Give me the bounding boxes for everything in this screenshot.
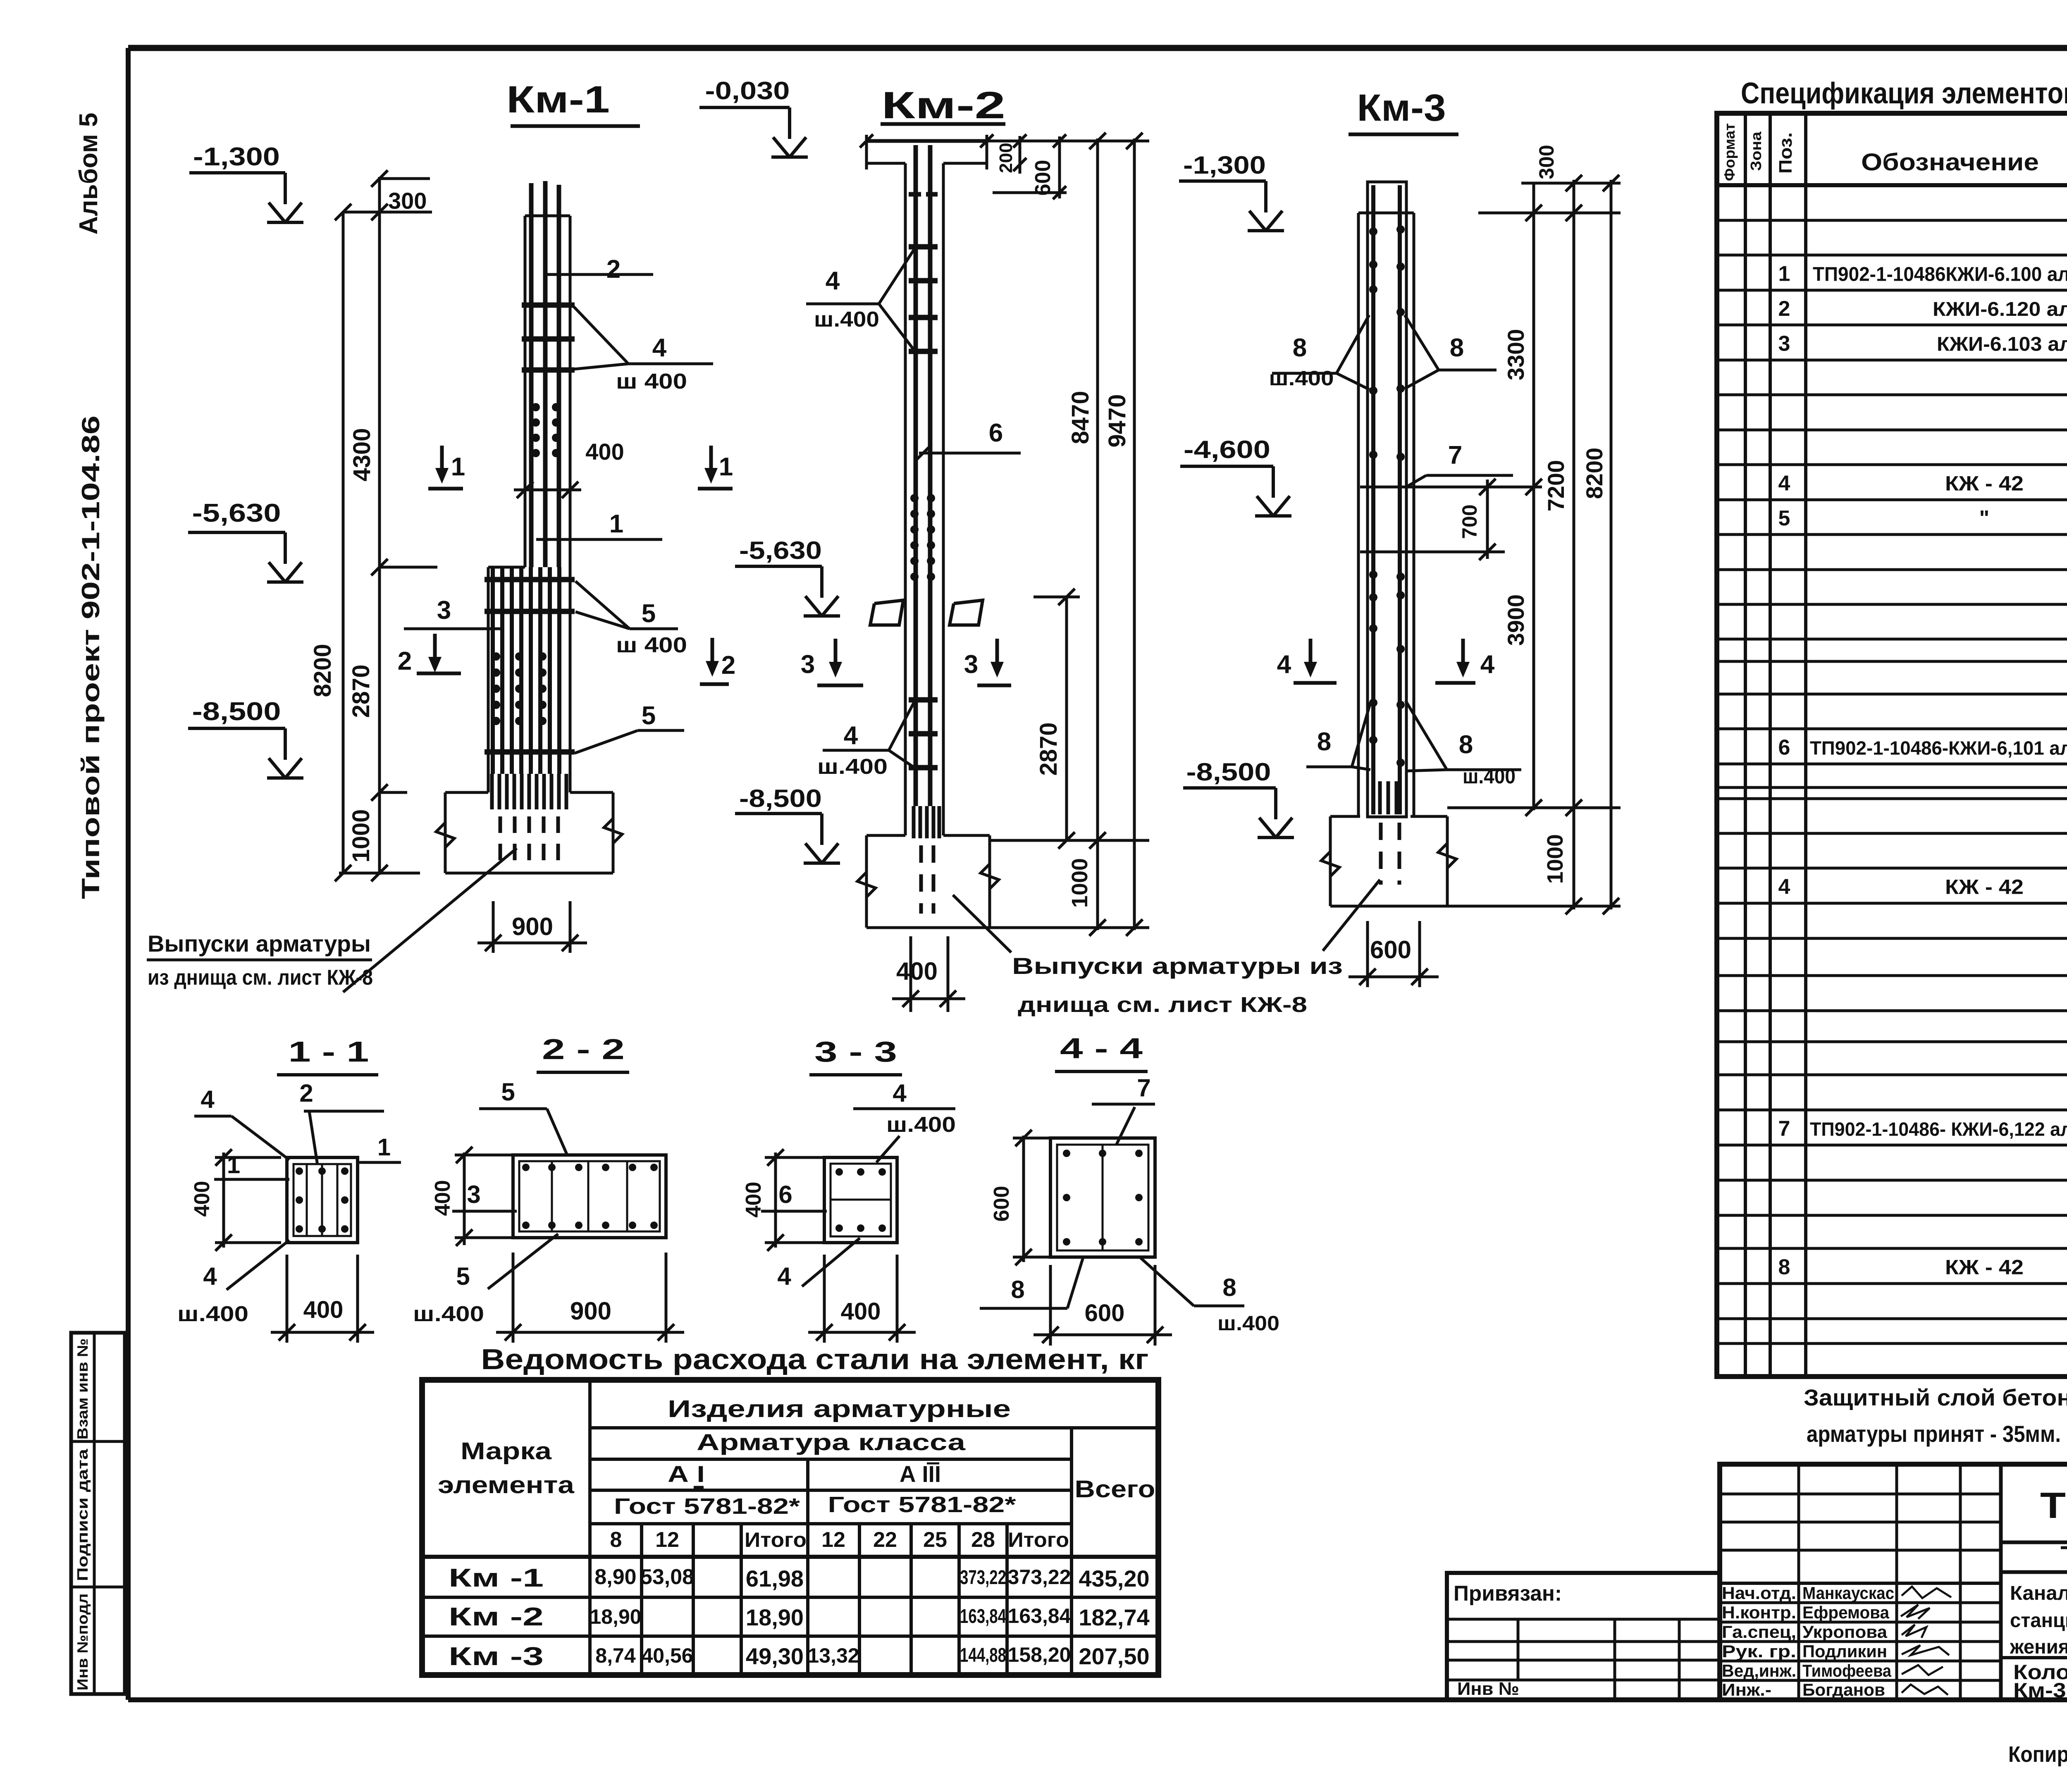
svg-text:18,90: 18,90: [590, 1605, 641, 1628]
svg-text:Изделия арматурные: Изделия арматурные: [668, 1396, 1011, 1422]
svg-text:12: 12: [821, 1528, 845, 1552]
svg-text:Марка: Марка: [461, 1438, 552, 1465]
Км-2 right dimension 600: [993, 134, 1067, 199]
spec row 5: КЖ-42 l=880: [1778, 506, 2067, 530]
svg-text:8: 8: [1459, 730, 1473, 759]
svg-text:Км-1: Км-1: [506, 79, 610, 121]
svg-text:3: 3: [437, 596, 451, 625]
Км-2 section mark 3 left: [801, 639, 863, 685]
Км-2 right dimension 200: [996, 134, 1026, 174]
svg-text:8: 8: [1222, 1274, 1236, 1301]
svg-text:Спецификация элементов к мон: Спецификация элементов к монолитным коло…: [1741, 77, 2067, 110]
svg-text:1: 1: [1778, 262, 1790, 286]
svg-text:-5,630: -5,630: [739, 537, 822, 564]
left margin rotated text: Типовой проект 902-1-104.86: [77, 415, 105, 899]
Км-1 width dim 400 with ticks: [514, 439, 624, 498]
svg-text:А III: А III: [900, 1461, 941, 1487]
svg-text:1: 1: [377, 1134, 391, 1161]
svg-text:Всего: Всего: [1075, 1476, 1155, 1503]
svg-text:КЖ - 42: КЖ - 42: [1945, 472, 2024, 495]
svg-text:8: 8: [1011, 1276, 1024, 1303]
svg-text:Выпуски арматуры из: Выпуски арматуры из: [1012, 953, 1343, 979]
svg-text:-1,300: -1,300: [193, 143, 280, 171]
svg-text:3900: 3900: [1503, 594, 1529, 646]
level mark -8,500 (Км-1): [188, 697, 303, 778]
cross-section 4-4 title: [1055, 1032, 1148, 1071]
Км-3 right dimension chain 3300/3900: [1457, 183, 1542, 816]
spec row 4: КЖ-42 l=380 (Км-2): [1778, 875, 2067, 899]
cross-section 1-1 inner rebar lines: [307, 1164, 337, 1236]
svg-text:Альбом 5: Альбом 5: [74, 113, 103, 235]
svg-text:5: 5: [642, 702, 656, 730]
Км-3 right dimension 300: [1478, 145, 1621, 213]
svg-text:28: 28: [971, 1528, 995, 1552]
cross-section 3-3 title: [809, 1036, 902, 1075]
svg-text:8: 8: [610, 1528, 622, 1552]
svg-text:-1,300: -1,300: [1183, 151, 1266, 179]
svg-text:ТП902-1-10486- КЖИ-6,122 ал 6: ТП902-1-10486- КЖИ-6,122 ал 6: [1810, 1119, 2067, 1140]
section 4-4 callout 7: [1092, 1074, 1155, 1145]
svg-text:1 - 1: 1 - 1: [289, 1036, 369, 1068]
svg-text:144,88: 144,88: [960, 1644, 1006, 1666]
svg-text:ТП902-1-10486-КЖИ-6,101 ал 6: ТП902-1-10486-КЖИ-6,101 ал 6: [1810, 737, 2067, 759]
svg-text:4: 4: [777, 1262, 791, 1290]
column elevation Км-1 title: [506, 79, 640, 126]
svg-text:61,98: 61,98: [746, 1565, 804, 1592]
svg-text:ш.400: ш.400: [886, 1113, 956, 1137]
Км-3 right dimension chain 7200/1000: [1447, 175, 1621, 914]
level mark -4,600 (Км-3): [1180, 436, 1291, 516]
svg-text:6: 6: [989, 419, 1003, 447]
svg-text:-8,500: -8,500: [192, 697, 281, 726]
svg-text:5: 5: [456, 1262, 470, 1290]
svg-text:300: 300: [388, 188, 427, 214]
Км-2 overall dimension 9470: [1104, 133, 1143, 936]
note Выпуски арматуры из днища см. лист КЖ-8 (Км-2/Км-3): [953, 880, 1380, 1017]
Км-1 section mark 2 right: [700, 638, 735, 684]
specification table grid: [1717, 113, 2067, 1377]
Км-1 longitudinal rebars (upper): [531, 181, 559, 567]
svg-text:Рук. гр.: Рук. гр.: [1722, 1642, 1796, 1661]
svg-text:300: 300: [1535, 145, 1558, 179]
svg-text:5: 5: [1778, 506, 1790, 530]
Км-1 stirrup callout 5 upper ш.400: [575, 581, 687, 657]
Км-3 stirrup callout 8 upper-left with ш.400: [1269, 315, 1370, 390]
Км-3 stirrup callout 8 upper-right: [1405, 315, 1497, 389]
svg-text:4: 4: [652, 334, 667, 362]
svg-text:ш.400: ш.400: [817, 755, 888, 779]
Км-2 rebar callout 6: [917, 419, 1021, 460]
svg-text:3300: 3300: [1503, 329, 1529, 381]
Км-1 rebar dots upper cluster: [532, 403, 560, 457]
svg-text:4300: 4300: [348, 428, 375, 481]
svg-text:-0,030: -0,030: [705, 77, 790, 105]
svg-text:Обозначение: Обозначение: [1861, 149, 2039, 176]
Км-3 longitudinal rebars: [1373, 185, 1400, 814]
steel table header Марка элемента: [438, 1438, 575, 1499]
concrete cover note line 2: [1807, 1421, 2061, 1447]
Км-3 stirrup callout 8 lower-right with ш.400: [1406, 701, 1521, 788]
svg-text:ш.400: ш.400: [1269, 367, 1334, 390]
section 3-3 dim 400 left: [742, 1149, 823, 1251]
spec row 8: КЖ-42 l=580: [1778, 1255, 2067, 1279]
svg-text:5: 5: [642, 599, 656, 628]
level mark -1,300 (Км-1): [189, 143, 303, 222]
svg-text:элемента: элемента: [438, 1472, 575, 1499]
svg-text:4: 4: [1778, 472, 1790, 496]
svg-text:163,84: 163,84: [960, 1606, 1006, 1627]
spec row 2: КЖИ-6.120 то же: [1778, 296, 2067, 321]
Км-1 stirrup ticks upper: [522, 305, 575, 370]
title block upper revision rows: [1720, 1494, 2001, 1583]
svg-text:40,56: 40,56: [641, 1644, 693, 1667]
title block project name: [2010, 1582, 2067, 1658]
signature row Рук.гр. Подликин: [1722, 1642, 1949, 1661]
section 1-1 callout 2: [299, 1079, 384, 1165]
section 4-4 dim 600 left: [990, 1130, 1075, 1265]
Км-3 concrete column outline: [1358, 213, 1414, 816]
steel consumption table grid: [422, 1380, 1158, 1675]
svg-text:1000: 1000: [1543, 834, 1568, 884]
svg-text:КЖ - 42: КЖ - 42: [1945, 1256, 2024, 1279]
column elevation Км-2 title: [881, 84, 1005, 126]
svg-text:200: 200: [996, 143, 1016, 173]
svg-text:18,90: 18,90: [746, 1604, 804, 1630]
Км-2 column body outline: [905, 163, 943, 835]
section 1-1 callout 1 left: [214, 1152, 289, 1179]
steel table row Км-2: [449, 1603, 1150, 1631]
svg-text:ш 400: ш 400: [616, 370, 687, 394]
svg-text:2: 2: [299, 1079, 313, 1107]
Км-3 foundation slab outline: [1321, 816, 1456, 906]
svg-text:6: 6: [1778, 736, 1790, 760]
Км-1 section mark 2 left: [398, 634, 461, 675]
concrete cover note line 1: [1804, 1384, 2067, 1410]
svg-text:900: 900: [570, 1297, 611, 1325]
section 1-1 dim 400 bottom: [271, 1255, 374, 1343]
left margin rotated text: Альбом 5: [74, 113, 103, 235]
svg-text:600: 600: [990, 1186, 1014, 1222]
svg-text:4: 4: [844, 721, 858, 750]
column elevation Км-3 title: [1349, 87, 1458, 134]
svg-text:373,22: 373,22: [960, 1567, 1006, 1589]
section 2-2 dim 400 left: [431, 1147, 513, 1246]
svg-text:Км-3: Км-3: [1357, 87, 1446, 129]
steel table header А III: [900, 1461, 941, 1487]
svg-text:": ": [1979, 506, 1990, 530]
svg-text:Итого: Итого: [745, 1528, 807, 1551]
cross-section 2-2 stirrup dividers: [552, 1161, 627, 1231]
Км-1 overall dimension 8200: [309, 204, 351, 881]
Км-2 stirrup ticks upper: [909, 247, 938, 351]
Км-1 stirrup ticks lower: [485, 580, 575, 752]
svg-text:400: 400: [431, 1180, 455, 1216]
svg-text:КЖ - 42: КЖ - 42: [1945, 876, 2024, 899]
svg-text:ш.400: ш.400: [1463, 765, 1516, 788]
svg-text:Гост 5781-82*: Гост 5781-82*: [828, 1492, 1016, 1517]
Км-1 section mark 1 right: [698, 446, 733, 489]
svg-text:4: 4: [1480, 650, 1495, 679]
svg-text:3 - 3: 3 - 3: [814, 1036, 897, 1068]
svg-text:Инж.-: Инж.-: [1722, 1680, 1771, 1699]
svg-text:-8,500: -8,500: [1186, 758, 1271, 786]
svg-text:435,20: 435,20: [1079, 1565, 1149, 1592]
svg-text:400: 400: [303, 1296, 344, 1323]
svg-text:2: 2: [721, 651, 735, 680]
Км-1 dimension chain 300/4300/2870/1000: [339, 170, 437, 881]
Км-3 rebar dots left: [1369, 227, 1377, 744]
steel table diameter headers: [610, 1528, 1069, 1552]
spec row 3: КЖИ-6.103: [1778, 326, 2067, 356]
svg-text:из днища см. лист КЖ-8: из днища см. лист КЖ-8: [148, 966, 373, 990]
svg-text:22: 22: [873, 1528, 897, 1552]
section 1-1 dim 400 left: [190, 1149, 281, 1251]
svg-text:Ефремова: Ефремова: [1802, 1603, 1890, 1622]
Км-2 foundation slab outline: [857, 835, 999, 928]
svg-text:13,32: 13,32: [807, 1644, 859, 1667]
section 1-1 callout 4 top: [194, 1086, 289, 1160]
svg-text:-5,630: -5,630: [192, 499, 281, 527]
title block signature row lines: [1720, 1603, 2001, 1680]
section 2-2 callout 3: [452, 1181, 517, 1211]
cross-section 2-2 title: [537, 1033, 629, 1072]
title block sheet name Колонны Км-1 Км-2 Км-3 Армирование: [2013, 1661, 2067, 1702]
section 2-2 callout 5 top: [479, 1078, 567, 1155]
section 3-3 callout 6: [761, 1181, 827, 1211]
svg-text:ш.400: ш.400: [814, 308, 879, 332]
Км-1 foundation slab outline: [436, 792, 622, 873]
Км-3 width dim 600: [1349, 921, 1439, 987]
svg-text:158,20: 158,20: [1008, 1643, 1071, 1666]
svg-text:Км-3. Армирование.: Км-3. Армирование.: [2013, 1679, 2067, 1702]
svg-text:1000: 1000: [1067, 858, 1092, 908]
svg-text:Подликин: Подликин: [1802, 1642, 1887, 1661]
Км-3 rebar callout 7: [1405, 441, 1513, 488]
Км-1 step and lower column outline: [488, 567, 525, 792]
level mark -8,500 (Км-2): [735, 785, 840, 863]
Км-2 right dimension chain 8470/1000: [987, 133, 1149, 936]
cross-section 4-4 middle rebar line: [1102, 1145, 1104, 1250]
Км-3 rebar cage outline: [1368, 182, 1406, 817]
svg-text:9470: 9470: [1104, 394, 1131, 447]
svg-text:8: 8: [1450, 334, 1464, 362]
svg-text:1: 1: [227, 1152, 240, 1179]
svg-text:4: 4: [203, 1262, 217, 1290]
svg-text:Км-2: Км-2: [881, 84, 1005, 126]
Км-1 longitudinal rebars (lower): [493, 567, 559, 774]
svg-text:ТП 902 -1-10486 - КЖ: ТП 902 -1-10486 - КЖ: [2040, 1485, 2067, 1526]
steel table header Арматура класса: [697, 1429, 966, 1455]
section 1-1 callout 4 bottom with ш.400: [177, 1240, 289, 1326]
specification table title: [1741, 77, 2067, 110]
Км-2 section mark 3 right: [964, 639, 1011, 685]
svg-text:Формат: Формат: [1721, 123, 1738, 181]
svg-text:2870: 2870: [1035, 722, 1062, 775]
svg-text:8200: 8200: [309, 644, 336, 697]
svg-text:5: 5: [501, 1078, 515, 1106]
svg-text:1: 1: [609, 510, 623, 538]
svg-text:Инв №: Инв №: [1457, 1679, 1519, 1699]
steel table header Гост 5781-82* (left): [614, 1494, 800, 1519]
svg-text:Манкаускас: Манкаускас: [1802, 1583, 1894, 1603]
svg-text:Гост 5781-82*: Гост 5781-82*: [614, 1494, 800, 1519]
Км-2 stirrup callout 4 ш.400 lower: [817, 702, 914, 779]
svg-text:8: 8: [1293, 334, 1307, 362]
Км-3 stirrup callout 8 lower-left: [1306, 703, 1370, 770]
signature row Га.спец Укропова: [1722, 1622, 1926, 1642]
svg-text:станция при глубине зало-: станция при глубине зало-: [2010, 1610, 2067, 1632]
cross-section 1-1 rebar dots: [296, 1167, 348, 1233]
svg-text:8: 8: [1778, 1255, 1790, 1279]
svg-text:Км -3: Км -3: [449, 1642, 544, 1671]
svg-text:Копировал: И.: Копировал: И.: [2008, 1742, 2067, 1767]
Км-2 rebar dots splice: [910, 494, 935, 581]
svg-text:2: 2: [606, 255, 621, 284]
steel table header Изделия арматурные: [668, 1396, 1011, 1422]
Км-1 rebar callout 1: [536, 510, 662, 539]
attachment block Привязан: [1447, 1573, 1720, 1700]
svg-text:Выпуски арматуры: Выпуски арматуры: [148, 931, 371, 957]
svg-text:207,50: 207,50: [1079, 1643, 1149, 1669]
level mark -5,630 (Км-2): [735, 537, 840, 616]
title block signature column dividers: [1799, 1464, 2001, 1700]
cross-section 3-3 concrete square: [824, 1157, 897, 1243]
section 1-1 callout 1 right: [358, 1134, 401, 1162]
section 3-3 callout 4 top with ш.400: [853, 1079, 956, 1162]
svg-text:1000: 1000: [348, 809, 375, 862]
svg-text:7: 7: [1778, 1117, 1790, 1141]
Км-2 longitudinal rebars: [916, 145, 930, 806]
svg-text:900: 900: [512, 913, 553, 940]
Км-2 rebar outlets into foundation: [914, 806, 939, 914]
svg-text:Вед,инж.: Вед,инж.: [1722, 1661, 1796, 1680]
svg-text:арматуры принят - 35мм.: арматуры принят - 35мм.: [1807, 1421, 2061, 1447]
svg-text:7: 7: [1137, 1074, 1150, 1102]
cross-section 1-1 title: [277, 1036, 378, 1075]
steel table header Всего: [1075, 1476, 1155, 1503]
svg-text:600: 600: [1085, 1300, 1125, 1327]
svg-text:400: 400: [190, 1181, 214, 1217]
svg-text:А I: А I: [668, 1461, 705, 1487]
svg-text:Га.спец,: Га.спец,: [1722, 1622, 1796, 1642]
Км-3 overall dimension 8200: [1581, 175, 1619, 914]
svg-text:2 - 2: 2 - 2: [542, 1033, 625, 1065]
svg-text:2870: 2870: [348, 664, 375, 718]
spec row 1: каркас плоский ТП902-1-10486КЖИ-6.100: [1778, 262, 2067, 286]
svg-text:373,22: 373,22: [1008, 1565, 1071, 1589]
cross-section 2-2 concrete rectangle: [513, 1155, 666, 1238]
Км-1 stirrup callout 5 lower: [575, 702, 684, 753]
title block outer frame: [1720, 1464, 2067, 1700]
svg-text:4: 4: [893, 1079, 907, 1107]
Км-1 rebar callout 3: [404, 596, 502, 629]
svg-text:400: 400: [585, 439, 624, 465]
svg-text:ш.400: ш.400: [413, 1302, 484, 1326]
svg-text:7200: 7200: [1543, 460, 1569, 512]
Км-2 dashed tie at cap base: [909, 192, 938, 197]
cross-section 1-1 concrete square: [287, 1157, 358, 1243]
section 4-4 callout 8 bottom-right with ш.400: [1140, 1258, 1279, 1335]
signature row Нач.отд. Манкаускас: [1722, 1583, 1951, 1603]
level mark -5,630 (Км-1): [188, 499, 303, 582]
Км-3 section mark 4 right: [1435, 639, 1495, 683]
svg-text:-4,600: -4,600: [1184, 436, 1270, 463]
Км-1 stirrup callout 4 ш.400: [574, 307, 713, 394]
svg-text:53,08: 53,08: [640, 1565, 694, 1589]
svg-text:ш 400: ш 400: [616, 633, 687, 657]
Км-1 rebar dots lower cluster: [492, 652, 547, 725]
Км-1 upper column concrete outline: [525, 216, 570, 792]
svg-text:-8,500: -8,500: [739, 785, 822, 812]
svg-text:8: 8: [1317, 728, 1331, 756]
cross-section 4-4 rebar dots: [1063, 1150, 1143, 1246]
Км-1 rebar callout 2: [545, 255, 653, 284]
level mark -8,500 (Км-3): [1183, 758, 1294, 838]
svg-text:4 - 4: 4 - 4: [1060, 1032, 1143, 1064]
svg-text:3: 3: [964, 650, 978, 679]
cross-section 3-3 rebar dots: [835, 1168, 886, 1232]
svg-text:жения коллектора - 4.0 м: жения коллектора - 4.0 м: [2010, 1636, 2067, 1658]
svg-text:8470: 8470: [1067, 391, 1094, 444]
Км-3 rebar outlets into foundation: [1380, 781, 1399, 885]
level mark -0,030 (Км-2): [699, 77, 808, 157]
svg-text:Подписи дата: Подписи дата: [74, 1448, 91, 1581]
svg-text:8,90: 8,90: [594, 1565, 636, 1589]
Км-1 footing width dim 900: [477, 901, 587, 953]
cross-section 2-2 rebar dots: [522, 1164, 658, 1229]
svg-text:7: 7: [1448, 441, 1462, 470]
svg-text:3: 3: [467, 1181, 480, 1208]
steel table header А I: [668, 1461, 705, 1487]
steel table row Км-3: [449, 1642, 1150, 1671]
svg-text:днища см. лист КЖ-8: днища см. лист КЖ-8: [1018, 993, 1307, 1017]
note Выпуски арматуры из днища см. лист КЖ-8 (Км-1): [147, 848, 517, 992]
svg-text:400: 400: [896, 957, 938, 985]
Км-2 stirrup ticks lower: [909, 700, 938, 768]
Км-2 embedded sleeve marks: [870, 600, 983, 625]
spec row 6: каркас плоский ТП902-1-10486-КЖИ-6,101: [1778, 735, 2067, 760]
svg-text:2: 2: [1778, 297, 1790, 321]
svg-text:Итого: Итого: [1008, 1528, 1069, 1551]
svg-text:Нач.отд.: Нач.отд.: [1722, 1583, 1796, 1603]
steel table row Км-1: [449, 1564, 1150, 1592]
svg-text:Зона: Зона: [1747, 131, 1764, 171]
Км-2 width dim 400: [892, 936, 965, 1012]
svg-text:ТП902-1-10486КЖИ-6.100 ал.6: ТП902-1-10486КЖИ-6.100 ал.6: [1813, 264, 2067, 286]
Км-2 stirrup callout 4 ш.400 upper: [806, 249, 914, 351]
level mark -1,300 (Км-3): [1179, 151, 1284, 231]
title block stage/sheet header row: [2001, 1572, 2067, 1700]
footer text Копировал: [2008, 1742, 2067, 1767]
svg-text:182,74: 182,74: [1079, 1604, 1149, 1630]
svg-text:Типовой проект 902-1-104.86: Типовой проект 902-1-104.86: [77, 415, 105, 899]
svg-text:4: 4: [200, 1086, 215, 1113]
svg-text:Укропова: Укропова: [1802, 1622, 1888, 1642]
svg-text:4: 4: [1778, 875, 1790, 899]
svg-text:49,30: 49,30: [746, 1643, 804, 1669]
Км-3 rebar dots right: [1396, 225, 1405, 767]
svg-text:3: 3: [801, 650, 815, 679]
svg-text:600: 600: [1370, 936, 1411, 964]
svg-text:Защитный слой бетона для р: Защитный слой бетона для рабочей: [1804, 1384, 2067, 1410]
svg-text:163,84: 163,84: [1008, 1604, 1071, 1627]
svg-text:400: 400: [841, 1298, 881, 1325]
spec row 4: КЖ-42 l=380: [1778, 472, 2067, 496]
Км-1 rebar outlets into foundation: [492, 774, 566, 868]
svg-text:Км -1: Км -1: [449, 1564, 544, 1592]
svg-text:ш.400: ш.400: [177, 1302, 248, 1326]
section 3-3 callout 4 bottom: [777, 1238, 860, 1290]
